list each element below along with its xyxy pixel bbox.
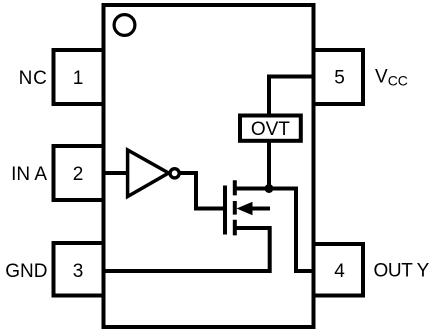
IC body outline bbox=[104, 5, 314, 327]
OVT block bbox=[240, 116, 301, 141]
svg-text:IN A: IN A bbox=[11, 164, 47, 185]
svg-text:OUT Y: OUT Y bbox=[374, 261, 430, 282]
pin 2 box bbox=[54, 146, 104, 200]
junction node dot bbox=[265, 184, 274, 193]
wire source to GND pin 3 bbox=[106, 228, 270, 271]
pin 5 box bbox=[314, 50, 364, 104]
pin 3 box bbox=[54, 243, 104, 296]
svg-text:3: 3 bbox=[73, 261, 84, 282]
wire inverter output to MOSFET gate bbox=[181, 173, 224, 209]
svg-text:1: 1 bbox=[73, 68, 84, 89]
pin 4 box bbox=[314, 244, 364, 296]
transistor Q1 body arrow bbox=[237, 202, 253, 215]
svg-text:NC: NC bbox=[19, 68, 48, 89]
svg-text:5: 5 bbox=[334, 67, 345, 88]
inverter U1 output bubble bbox=[170, 169, 179, 178]
svg-text:4: 4 bbox=[334, 261, 345, 282]
transistor Q1 body lead bbox=[250, 207, 270, 211]
inverter U1 triangle bbox=[128, 150, 169, 197]
wire OVT to drain junction bbox=[267, 141, 271, 189]
pin 1 box bbox=[54, 50, 104, 104]
wire drain to OUT Y pin 4 bbox=[235, 189, 314, 272]
pin 1 indicator circle bbox=[114, 15, 135, 36]
svg-text:2: 2 bbox=[73, 164, 84, 185]
svg-text:GND: GND bbox=[5, 261, 47, 282]
wire pin2 to inverter input bbox=[106, 171, 127, 175]
svg-text:VCC: VCC bbox=[375, 67, 408, 89]
svg-text:OVT: OVT bbox=[251, 119, 290, 140]
transistor Q1 channel segments bbox=[233, 180, 237, 235]
transistor Q1 gate bar bbox=[223, 186, 227, 235]
wire VCC pin 5 to OVT bbox=[269, 77, 314, 116]
